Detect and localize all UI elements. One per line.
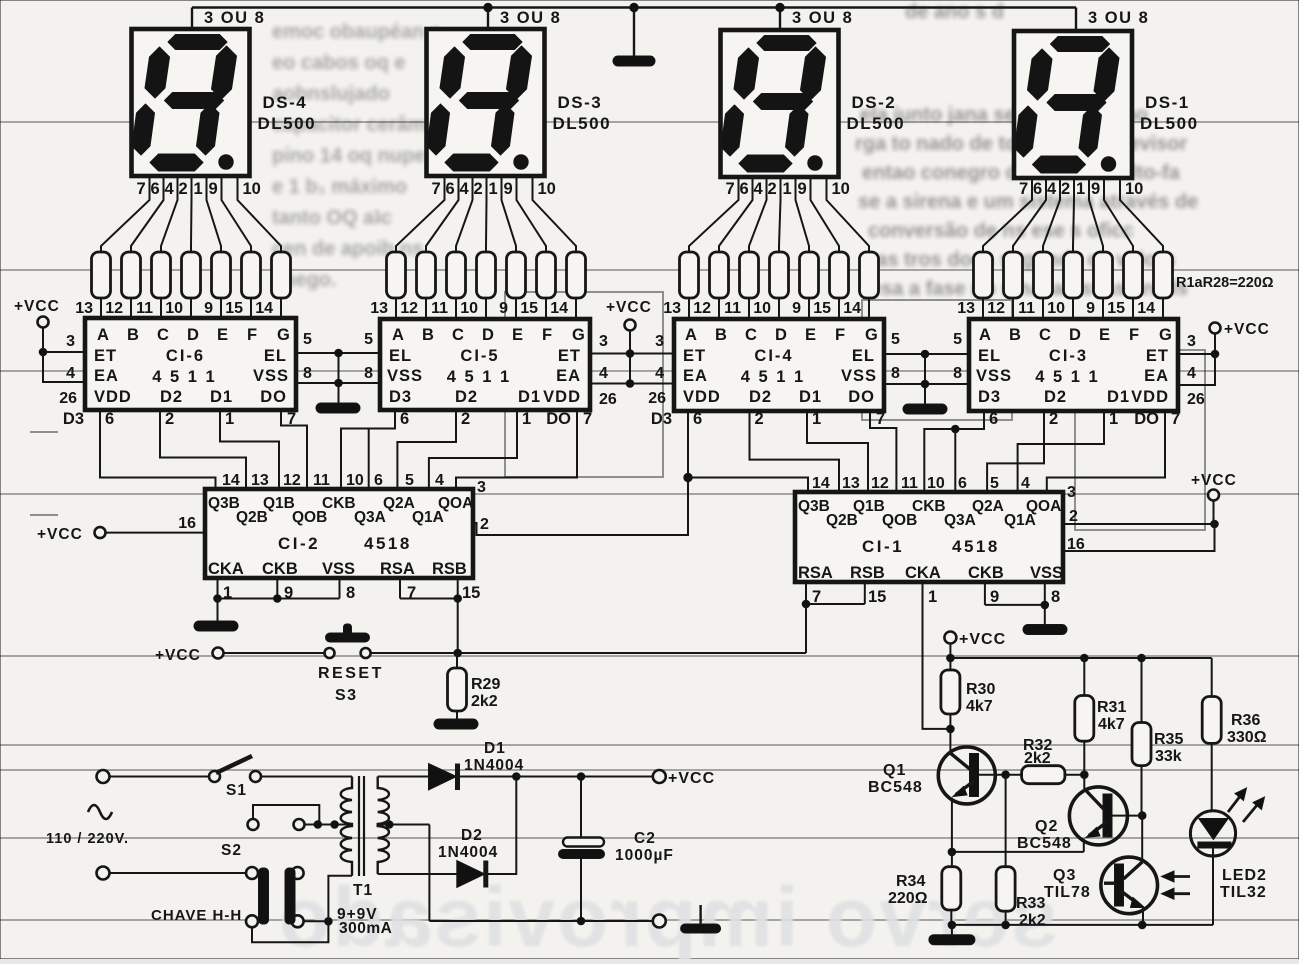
svg-text:RSB: RSB <box>432 560 467 578</box>
svg-text:1N4004: 1N4004 <box>438 844 498 861</box>
resistor R2 <box>122 252 141 298</box>
wire resistor R10 to IC pin <box>455 298 457 319</box>
svg-text:4: 4 <box>599 365 608 382</box>
wire VCC drop <box>1213 501 1215 525</box>
resistor R19 <box>800 252 819 298</box>
svg-text:R34: R34 <box>896 873 925 890</box>
svg-text:2: 2 <box>179 180 188 198</box>
svg-text:C2: C2 <box>634 830 656 847</box>
svg-text:DO: DO <box>1134 410 1159 428</box>
svg-text:TIL78: TIL78 <box>1044 884 1091 901</box>
svg-text:D3: D3 <box>978 388 1001 406</box>
svg-text:TIL32: TIL32 <box>1220 884 1267 901</box>
wire Q3B net to CI-1 pin14 <box>688 478 808 495</box>
node RSB junction <box>454 595 462 603</box>
svg-text:4 5 1 1: 4 5 1 1 <box>447 368 511 386</box>
resistor R35 <box>1141 658 1143 723</box>
wire CI-2 CKA pin1 stub <box>217 578 219 599</box>
svg-text:4 5 1 1: 4 5 1 1 <box>1035 368 1099 386</box>
pin labels DS-2 <box>726 180 850 198</box>
svg-text:A: A <box>392 326 404 344</box>
node R33 gnd <box>1002 921 1010 929</box>
resistor R29 <box>448 668 467 711</box>
pin labels DS-1 <box>1019 180 1143 198</box>
node reset R29 junction <box>454 649 462 657</box>
svg-text:4: 4 <box>66 365 75 382</box>
svg-text:13: 13 <box>251 472 269 489</box>
resistor R30 <box>941 670 960 714</box>
svg-text:ET: ET <box>1146 347 1169 365</box>
node Q2 base <box>1138 812 1146 820</box>
node RSA junction <box>802 600 810 608</box>
wire VCC to EA pin4 CI-3 <box>1178 354 1215 385</box>
svg-text:D: D <box>775 326 787 344</box>
svg-text:4k7: 4k7 <box>1098 716 1125 733</box>
svg-text:220Ω: 220Ω <box>888 890 928 907</box>
svg-text:2k2: 2k2 <box>1019 912 1046 929</box>
svg-text:2k2: 2k2 <box>1024 750 1051 767</box>
wire resistor R9 to IC pin <box>425 298 427 319</box>
wire CI-2 VSS pin8 stub <box>339 578 341 599</box>
svg-text:Q2A: Q2A <box>972 498 1004 515</box>
svg-text:D1: D1 <box>210 388 233 406</box>
wire center tap down to 0V rail <box>428 825 430 922</box>
wire CI-4 D1 to CI-1 pin12 <box>807 411 868 494</box>
svg-text:F: F <box>542 326 552 344</box>
svg-text:Q2B: Q2B <box>826 512 858 529</box>
wire CI-1 CKB pin9 stub <box>984 582 986 605</box>
wire CI-1 pin2 to VCC <box>1063 523 1215 525</box>
wire R30 to Q1 collector <box>949 714 951 753</box>
svg-text:Q2: Q2 <box>1035 818 1058 835</box>
transformer T1 primary winding <box>341 777 352 876</box>
svg-text:DO: DO <box>848 388 875 406</box>
svg-text:Q1: Q1 <box>883 762 906 779</box>
wire RSA down to reset line <box>805 604 807 653</box>
CI-6 side pin labels <box>59 331 312 407</box>
svg-text:330Ω: 330Ω <box>1227 729 1267 746</box>
wire VSS pins CI-4 CI-3 <box>884 383 969 385</box>
svg-text:4: 4 <box>655 365 664 382</box>
CI-5 inside labels <box>387 347 581 406</box>
svg-text:A: A <box>685 326 697 344</box>
svg-text:D: D <box>187 326 199 344</box>
wire EL pins CI-6 CI-5 <box>296 352 380 354</box>
wire LED cathode to 0V <box>1212 848 1214 925</box>
svg-text:5: 5 <box>405 472 414 489</box>
svg-text:C: C <box>157 326 169 344</box>
svg-text:9: 9 <box>204 300 213 317</box>
svg-text:9: 9 <box>1086 300 1095 317</box>
capacitor C2 plus plate <box>563 838 604 847</box>
wire VCC to ET pin3 CI-3 <box>1214 334 1216 355</box>
svg-text:D3: D3 <box>63 410 84 428</box>
svg-text:CI-4: CI-4 <box>754 347 793 365</box>
diode D1 <box>429 764 457 791</box>
svg-text:11: 11 <box>724 300 741 317</box>
wire display pin to resistor R7 <box>238 177 282 253</box>
svg-text:12: 12 <box>871 475 889 492</box>
ground bar R29 <box>434 719 478 729</box>
svg-text:S2: S2 <box>221 842 242 859</box>
wire R35 to Q2 base node <box>1141 766 1143 816</box>
CI-4 side pin labels <box>648 331 900 407</box>
svg-text:2: 2 <box>1049 410 1058 428</box>
wire Q2 base to R35 column <box>1112 815 1142 817</box>
svg-text:CKB: CKB <box>262 560 298 578</box>
wire VCC to reset switch <box>224 652 325 654</box>
svg-text:2: 2 <box>768 180 777 198</box>
svg-text:R31: R31 <box>1097 699 1126 716</box>
CI-3 segment letters A-G <box>979 326 1172 344</box>
wire secondary top to D1 <box>378 776 429 778</box>
svg-text:8: 8 <box>1051 588 1060 606</box>
svg-text:1: 1 <box>225 410 234 428</box>
svg-text:Q2A: Q2A <box>383 495 415 512</box>
svg-text:9: 9 <box>792 300 801 317</box>
svg-text:4: 4 <box>460 180 470 198</box>
svg-text:EA: EA <box>94 367 119 385</box>
svg-text:33k: 33k <box>1155 748 1182 765</box>
svg-text:CI-5: CI-5 <box>460 347 499 365</box>
wire S2 bottom U <box>252 921 328 942</box>
svg-text:4: 4 <box>1187 365 1196 382</box>
svg-text:5: 5 <box>891 331 900 348</box>
svg-text:R33: R33 <box>1016 895 1045 912</box>
CI-5 segment letters A-G <box>392 326 585 344</box>
svg-text:+VCC: +VCC <box>1191 472 1237 489</box>
AC terminal upper <box>97 770 110 783</box>
wire secondary center tap <box>379 824 429 826</box>
wire display pin to resistor R2 <box>131 177 164 253</box>
IC CI-4 4511 box <box>674 319 884 411</box>
wire Q3 emitter to 0V <box>1142 907 1144 925</box>
svg-text:CI-2: CI-2 <box>278 534 320 553</box>
svg-text:2: 2 <box>461 410 470 428</box>
wire DS-3 common <box>487 8 489 31</box>
svg-text:1000µF: 1000µF <box>615 847 674 864</box>
svg-text:VSS: VSS <box>322 560 355 578</box>
CI-1 inside output labels row2 <box>826 512 1036 529</box>
resistor R10 <box>447 252 466 298</box>
wire resistor R2 to IC pin <box>130 298 132 319</box>
wire EA pins CI-5 CI-4 <box>590 383 674 385</box>
svg-text:10: 10 <box>538 180 556 198</box>
wire CI-4 DO to CI-1 pin11 <box>870 411 896 494</box>
svg-text:7: 7 <box>583 410 592 428</box>
wire resistor R6 to IC pin <box>250 298 252 319</box>
svg-text:26: 26 <box>648 390 666 407</box>
svg-text:11: 11 <box>1018 300 1035 317</box>
svg-text:R36: R36 <box>1231 712 1260 729</box>
wire CI-2 pin2 ENA to Q3B net <box>473 478 688 536</box>
wire DS-4 common <box>191 8 193 31</box>
svg-text:5: 5 <box>953 331 962 348</box>
svg-text:1: 1 <box>1109 410 1118 428</box>
VCC rail oscillator <box>950 657 1211 659</box>
node tap a <box>314 821 322 829</box>
svg-text:13: 13 <box>370 300 388 317</box>
wire node to Q2 collector <box>1083 775 1085 789</box>
svg-text:QOB: QOB <box>292 509 327 526</box>
resistor R4 <box>182 252 201 298</box>
CI-6 top pin labels <box>75 300 273 317</box>
wire CI-1 VSS pin8 stub <box>1044 582 1046 605</box>
wire RSB down to reset line <box>457 599 459 654</box>
svg-text:14: 14 <box>812 475 830 492</box>
CI-5 side pin labels <box>364 331 617 408</box>
svg-text:14: 14 <box>843 300 861 317</box>
0V rail <box>429 920 652 922</box>
wire CI-2 RSB pin15 stub <box>457 578 459 599</box>
display DS-2 segments digit 8 <box>721 36 826 173</box>
svg-text:2: 2 <box>1061 180 1070 198</box>
ground bar left pair <box>316 403 360 413</box>
wire R36 to LED <box>1211 743 1213 812</box>
wire CI-1 RSB pin15 stub <box>864 582 866 604</box>
svg-text:R29: R29 <box>471 676 500 693</box>
svg-text:2: 2 <box>165 410 174 428</box>
wire CI-3 D1 to CI-1 pin4 <box>1018 411 1104 494</box>
svg-text:14: 14 <box>1137 300 1155 317</box>
node bus junction DS-2 <box>776 3 784 11</box>
svg-text:QOB: QOB <box>882 512 917 529</box>
svg-text:2: 2 <box>474 180 483 198</box>
wire display pin to resistor R25 <box>1073 177 1074 253</box>
svg-text:e 1 b₁ máximo: e 1 b₁ máximo <box>272 176 407 198</box>
switch S2 H-H contacts <box>246 867 258 879</box>
svg-text:12: 12 <box>987 300 1005 317</box>
wire EL-VSS ground drop left <box>338 353 340 403</box>
svg-text:R35: R35 <box>1154 731 1183 748</box>
svg-text:13: 13 <box>75 300 93 317</box>
pin labels DS-3 <box>432 180 556 198</box>
svg-text:6: 6 <box>374 472 383 489</box>
wire R29 to ground <box>456 711 458 719</box>
wire resistor R12 to IC pin <box>515 298 517 319</box>
svg-text:10: 10 <box>832 180 850 198</box>
svg-text:8: 8 <box>891 365 900 382</box>
svg-text:LED2: LED2 <box>1222 867 1267 884</box>
resistor R6 <box>242 252 261 298</box>
svg-text:300mA: 300mA <box>339 920 392 937</box>
ground symbol psu <box>699 905 701 924</box>
svg-text:26: 26 <box>1187 391 1205 408</box>
resistor R9 <box>417 252 436 298</box>
CI-6 segment letters A-G <box>97 326 290 344</box>
svg-text:E: E <box>512 326 523 344</box>
svg-text:5: 5 <box>303 331 312 348</box>
svg-text:Q1A: Q1A <box>1004 512 1036 529</box>
svg-text:13: 13 <box>663 300 681 317</box>
svg-text:26: 26 <box>59 390 77 407</box>
IC CI-3 4511 box <box>969 319 1178 411</box>
wire AC2 to S2 <box>110 872 247 874</box>
wire display pin to resistor R5 <box>207 177 222 253</box>
wire C2 top lead <box>580 777 582 839</box>
wire to +VCC terminal <box>581 776 653 778</box>
wire CI-6 D3 to CI-2 pin14 <box>100 410 216 489</box>
display DS-3 DL500 box <box>427 29 545 176</box>
svg-text:12: 12 <box>693 300 711 317</box>
svg-text:10: 10 <box>1047 300 1065 317</box>
IC CI-5 4511 box <box>380 319 590 410</box>
svg-text:15: 15 <box>225 300 243 317</box>
wire display pin to resistor R19 <box>796 177 810 253</box>
CI-3 top pin labels <box>957 300 1155 317</box>
wire primary bottom return <box>328 876 352 922</box>
wire R34 to 0V <box>950 910 952 925</box>
resistor R12 <box>507 252 526 298</box>
CI-2 inside output labels row2 <box>236 509 444 526</box>
wire CI-5 D3 to CI-2 pin10 CKB <box>341 410 395 489</box>
resistor R8 <box>387 252 406 298</box>
svg-text:4: 4 <box>754 180 764 198</box>
wire ET pins CI-5 CI-4 <box>590 353 674 355</box>
svg-text:VSS: VSS <box>976 367 1012 385</box>
resistor R27 <box>1124 252 1143 298</box>
wire resistor R23 to IC pin <box>1012 298 1014 319</box>
resistor R13 <box>537 252 556 298</box>
wire VCC to CI-2 pin16 <box>106 532 206 534</box>
wire RSA-RSB tie <box>806 603 865 605</box>
wire display pin to resistor R21 <box>827 177 870 253</box>
node Q3B net <box>684 473 692 481</box>
svg-text:3: 3 <box>1067 484 1076 501</box>
svg-text:1: 1 <box>928 588 937 606</box>
svg-text:4 5 1 1: 4 5 1 1 <box>741 368 805 386</box>
wire resistor R26 to IC pin <box>1102 298 1104 319</box>
svg-text:6: 6 <box>446 180 455 198</box>
svg-text:1N4004: 1N4004 <box>464 757 524 774</box>
wire resistor R27 to IC pin <box>1132 298 1134 319</box>
node R34 gnd <box>948 921 956 929</box>
svg-text:VSS: VSS <box>1030 564 1063 582</box>
node rail R30 <box>947 654 955 662</box>
node Q3A net right <box>952 425 960 433</box>
switch S3 actuator bar <box>326 633 370 642</box>
Q3 light arrows <box>1168 875 1190 878</box>
wire S2 selector bridge <box>253 805 319 825</box>
wire AC1 to S1 <box>110 776 210 778</box>
wire display pin to resistor R27 <box>1104 177 1133 253</box>
transistor Q3 TIL78 <box>1101 857 1158 914</box>
wire resistor R8 to IC pin <box>395 298 397 319</box>
svg-text:2: 2 <box>755 410 764 428</box>
resistor R31 <box>1075 696 1094 742</box>
svg-text:1: 1 <box>1076 180 1085 198</box>
0V terminal <box>653 915 666 928</box>
AC sine symbol <box>88 805 112 819</box>
svg-text:9: 9 <box>209 180 218 198</box>
svg-text:+VCC: +VCC <box>14 298 60 315</box>
wire CI-2 CKB pin9 stub <box>276 578 278 599</box>
svg-text:1: 1 <box>489 180 498 198</box>
wire EL-VSS ground drop right <box>924 354 926 404</box>
svg-text:DS-1: DS-1 <box>1145 93 1190 112</box>
svg-text:10: 10 <box>460 300 478 317</box>
svg-text:Q3: Q3 <box>1053 867 1076 884</box>
svg-text:+VCC: +VCC <box>959 631 1006 648</box>
display DS-3 segments digit 8 <box>427 35 532 172</box>
wire resistor R4 to IC pin <box>190 298 192 319</box>
wire resistor R28 to IC pin <box>1162 298 1164 319</box>
resistor R17 <box>740 252 759 298</box>
svg-text:CI-6: CI-6 <box>166 347 205 365</box>
wire resistor R7 to IC pin <box>280 298 282 319</box>
transformer T1 core <box>358 776 360 876</box>
wire CKB to VSS tie <box>985 604 1045 606</box>
svg-text:14: 14 <box>222 472 240 489</box>
svg-text:3: 3 <box>66 333 75 350</box>
wire CI-1 CKA pin1 long drop <box>923 582 951 729</box>
wire CI-6 D2 to CI-2 pin13 <box>160 410 246 489</box>
svg-text:9: 9 <box>990 588 999 606</box>
wire VCC vertical middle <box>629 331 631 384</box>
svg-text:ET: ET <box>683 347 706 365</box>
wire CI-2 pin6 Q3A tie <box>368 429 370 490</box>
wire R33 to 0V <box>1005 911 1007 925</box>
svg-text:VDD: VDD <box>94 388 132 406</box>
wire Q1 base to R33 node <box>979 774 1006 776</box>
wire CI-5 DO to CI-2 pin3 <box>456 411 577 489</box>
svg-text:EL: EL <box>978 347 1001 365</box>
svg-text:3: 3 <box>655 333 664 350</box>
svg-text:A: A <box>97 326 109 344</box>
wire CI-3 DO to CI-1 pin3 <box>1047 411 1165 494</box>
CI-3 bottom pin labels <box>989 410 1180 428</box>
svg-text:G: G <box>1159 326 1172 344</box>
svg-text:A: A <box>979 326 991 344</box>
svg-text:7: 7 <box>137 180 146 198</box>
svg-text:Q2B: Q2B <box>236 509 268 526</box>
svg-text:15: 15 <box>1107 300 1125 317</box>
ground bar right pair <box>903 404 947 414</box>
svg-text:+VCC: +VCC <box>155 647 201 664</box>
wire CI-3 D3 to CI-1 pin10 CKB <box>924 411 984 494</box>
wire display pin to resistor R9 <box>426 177 459 253</box>
svg-text:D1: D1 <box>1107 388 1130 406</box>
node center tap <box>386 821 394 829</box>
resistor R24 <box>1034 252 1053 298</box>
resistor R28 <box>1154 252 1173 298</box>
wire to C2 node <box>516 776 581 778</box>
node EL right <box>921 350 929 358</box>
node VSS right <box>921 380 929 388</box>
svg-text:CI-3: CI-3 <box>1049 347 1088 365</box>
svg-text:12: 12 <box>400 300 418 317</box>
svg-text:2: 2 <box>480 516 489 533</box>
svg-text:1: 1 <box>812 410 821 428</box>
svg-text:D: D <box>1069 326 1081 344</box>
wire CI-1 pin6 Q3A tie <box>954 429 956 494</box>
svg-text:6: 6 <box>1033 180 1042 198</box>
svg-text:3: 3 <box>477 479 486 496</box>
svg-text:F: F <box>247 326 257 344</box>
wire display pin to resistor R6 <box>222 177 252 253</box>
svg-text:RSB: RSB <box>850 564 885 582</box>
svg-text:11: 11 <box>136 300 153 317</box>
svg-text:11: 11 <box>313 472 330 489</box>
display DS-2 DL500 box <box>721 30 839 177</box>
svg-text:DL500: DL500 <box>1140 114 1199 133</box>
wire resistor R18 to IC pin <box>778 298 780 319</box>
CI-4 inside labels <box>683 347 877 406</box>
svg-text:conversão de ns ese s oficc: conversão de ns ese s oficc <box>868 220 1134 242</box>
svg-text:F: F <box>835 326 845 344</box>
svg-text:D1: D1 <box>799 388 822 406</box>
svg-text:EA: EA <box>1144 367 1169 385</box>
